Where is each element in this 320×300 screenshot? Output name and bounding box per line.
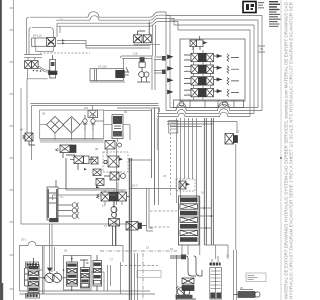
base port circle 1 [179, 101, 184, 106]
quick coupler 1 [58, 203, 79, 208]
quick coupler 2 [58, 208, 79, 213]
bottom-left unit boundary [20, 242, 156, 295]
label box far right [246, 273, 266, 282]
wire: arrows on feed [62, 39, 65, 44]
svg-text:28: 28 [64, 249, 68, 253]
extra mid valve top [105, 141, 122, 150]
bypass relief valve box [88, 110, 98, 117]
right margin rule [280, 0, 282, 300]
wire: dashed stubs left of stack [150, 210, 177, 212]
far-right slim stack [93, 255, 102, 291]
svg-text:18: 18 [146, 246, 150, 250]
sub valve cluster under mid [109, 201, 120, 246]
wire: inner rect extension [104, 111, 157, 151]
inline filter on drop line [169, 121, 178, 134]
wire: manifold loop R2 [163, 15, 258, 107]
wire: run y56 with elbow down [121, 56, 153, 70]
margin dot [280, 157, 282, 159]
check valve pair [83, 115, 95, 130]
wire: bank risers [177, 196, 200, 300]
reservoir tank [47, 180, 59, 222]
wire: top pipe run B [32, 20, 150, 28]
big return loop [21, 88, 129, 224]
wire: bottom-mid verticals [116, 208, 138, 300]
wire: pipe bridge arc [88, 12, 99, 21]
hose: s-curves top [150, 12, 163, 17]
scan edge blob bottom [0, 283, 3, 300]
right sub-block boundary [64, 256, 92, 291]
base port circle 2 [223, 101, 228, 106]
svg-text:118: 118 [133, 52, 138, 56]
pressure switch cluster E [103, 152, 128, 172]
label box bottom-mid [137, 271, 161, 278]
wire: mid feed line y43 [57, 41, 150, 49]
svg-text:A3: A3 [186, 81, 190, 85]
wire: dash-dot boundary bottom-mid [100, 250, 177, 252]
component part labels [20, 18, 244, 291]
power unit A inner boundary [40, 110, 104, 139]
wire: unit A internal bus [40, 106, 130, 141]
left relief valve on unit A edge [23, 133, 35, 145]
wire: extra pipe pair [57, 23, 150, 37]
svg-text:16: 16 [201, 191, 205, 195]
aux valve stack (right) [179, 196, 200, 245]
svg-text:21: 21 [60, 18, 64, 22]
extra small box left [96, 179, 104, 186]
svg-text:27: 27 [110, 258, 114, 262]
cylinder C2 body [90, 69, 123, 81]
valve station top-left: header bars [24, 50, 42, 57]
svg-text:A2: A2 [186, 69, 190, 73]
base plate cells [190, 100, 234, 108]
wire: manifold drop bundle A [177, 118, 197, 203]
logo block [243, 2, 256, 13]
connector dots [33, 70, 35, 72]
svg-text:06: 06 [20, 128, 24, 132]
test point box with X [225, 134, 238, 145]
wire: loop drops into bottom unit [50, 224, 53, 247]
svg-text:09: 09 [124, 110, 128, 114]
valve section row 2 [168, 65, 240, 73]
wire: under-cylinder line [90, 81, 125, 83]
wire: long vertical bundle left-mid [152, 109, 155, 205]
hose fitting ticks [162, 56, 166, 61]
manifold block outline [180, 39, 245, 101]
label plate 2 [26, 294, 40, 299]
wire: second vertical pipe left [29, 28, 31, 50]
wire: drop pair links [204, 122, 237, 260]
wire: station links [28, 57, 35, 60]
ladder column [210, 268, 222, 300]
svg-text:10-3: 10-3 [132, 184, 138, 188]
small valves left of cluster [91, 157, 101, 176]
svg-text:14: 14 [102, 204, 106, 208]
left border line [13, 0, 15, 300]
wire: manifold loop R4 [157, 22, 250, 117]
wire: manifold drop heavy pair 2 [211, 118, 213, 245]
svg-text:12-40: 12-40 [58, 148, 66, 152]
wire: stack stubs right [199, 208, 213, 228]
wire: dashed pilot line under C1 [40, 52, 90, 54]
arrows right of manifold [258, 46, 265, 52]
solenoid valve block D [66, 156, 93, 190]
manifold base plate [174, 100, 244, 108]
svg-text:A1: A1 [186, 58, 190, 62]
cylinder C1 lower body [36, 46, 54, 51]
check valve cluster mid-top [134, 22, 152, 43]
wire: accumulator drop [116, 139, 117, 206]
pilot valve on manifold top [190, 36, 207, 50]
wire: mid cluster drops [66, 190, 126, 208]
svg-text:15: 15 [104, 224, 108, 228]
valve station: small actuator column [49, 55, 58, 78]
quick coupler 3 [58, 214, 79, 219]
valve section row 4 [168, 88, 240, 96]
cylinder C2 rod stub [125, 67, 129, 75]
wire: drop from check cluster [134, 44, 161, 47]
wire: column risers [212, 245, 237, 300]
wire: bottom-left verticals [43, 246, 55, 294]
filter F2 diamond [63, 117, 80, 134]
wire: manifold drop heavy pair 1 [204, 118, 206, 245]
valve under accumulator [104, 172, 125, 180]
cylinder C1 rod-end valve cluster [47, 38, 56, 47]
svg-text:19: 19 [170, 247, 174, 251]
power unit A outer boundary [30, 104, 159, 161]
svg-text:31: 31 [60, 195, 64, 199]
cylinder C1 body [32, 38, 52, 46]
cylinder C2 rod block [115, 70, 124, 78]
cylinder C2 piston [95, 69, 97, 81]
scan edge strip [0, 0, 2, 300]
wire: horizontal stub runs right [154, 57, 166, 73]
wire: top pipe run A [30, 16, 150, 18]
wire: lower header lines [167, 122, 237, 127]
svg-text:13: 13 [236, 130, 240, 134]
valve station: wavy links [38, 67, 50, 71]
ladder column label [210, 263, 221, 266]
ruler tick marks [10, 8, 14, 289]
pump circle pair [39, 268, 66, 282]
bottom-left unit right edge [121, 246, 124, 295]
svg-text:HYDRAULIC CIRCUIT DIAGRAM EXCA: HYDRAULIC CIRCUIT DIAGRAM EXCAVATOR SERI… [289, 2, 294, 299]
wire: right elbow pair [147, 189, 154, 232]
valve section row 1 [168, 53, 240, 61]
svg-text:A4: A4 [186, 93, 190, 97]
bottom valve row of mid cluster [96, 192, 129, 201]
wire: inner double bottom [40, 141, 104, 143]
bottom-right motor unit [234, 290, 261, 298]
inner stack 1 [67, 256, 78, 292]
wire: main vertical supply pipe left [27, 17, 29, 50]
wire: inter-row links [194, 47, 211, 101]
solenoid valve block C (lower-left of unit A) [56, 145, 77, 158]
wire: vertical pair mid [152, 25, 159, 205]
left valve stack column [25, 258, 40, 294]
right margin watermark text [284, 1, 294, 299]
wire: manifold loop R3 [157, 18, 254, 113]
label plate 1 [26, 262, 39, 267]
cylinder C1 piston [34, 38, 36, 46]
svg-text:08: 08 [95, 147, 99, 151]
svg-text:30-1: 30-1 [21, 238, 27, 242]
svg-text:25: 25 [240, 286, 244, 290]
wire: bottom-left links [39, 265, 111, 291]
valve station: solenoid valve 1 [25, 61, 32, 69]
title block text [258, 1, 281, 27]
arrow marks mid cluster [84, 168, 100, 189]
wire: manifold loop R1 [163, 12, 262, 111]
wire: heavy return line pair [129, 158, 131, 300]
valve station: solenoid valve 2 [32, 61, 39, 69]
breather/accumulator column [112, 115, 123, 139]
pilot valve cluster above bank [176, 179, 195, 191]
svg-text:22: 22 [226, 254, 230, 258]
svg-text:11: 11 [130, 158, 133, 162]
filter F1 diamond [47, 117, 64, 134]
connector dots on stubs [204, 207, 206, 209]
svg-text:3/4: 3/4 [84, 106, 88, 110]
wire: tank top runs [58, 188, 116, 190]
wire: cluster cross links [107, 149, 176, 192]
connector dots bottom-left [43, 277, 45, 279]
wire: station drop lines [27, 68, 48, 133]
wire: elbow to valve cluster [51, 28, 54, 37]
gauge assembly mid [137, 58, 150, 83]
svg-text:05: 05 [42, 112, 46, 116]
wire: dashed vertical line [170, 125, 172, 195]
bottom-mid pump group [170, 255, 202, 300]
svg-text:20: 20 [163, 174, 167, 178]
svg-text:07-220: 07-220 [98, 65, 107, 69]
wire: tank feed [53, 195, 117, 200]
inner stack 2 [80, 260, 90, 288]
side valve with solenoid [126, 222, 147, 231]
valve section row 3 [168, 77, 240, 85]
svg-text:04-115: 04-115 [33, 34, 42, 38]
